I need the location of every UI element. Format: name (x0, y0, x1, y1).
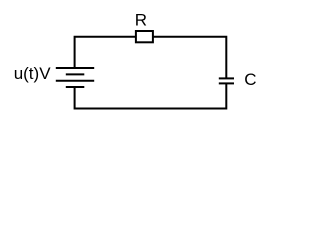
battery / voltage source u(t)V : long plate 1 (56, 67, 94, 69)
svg-text:u(t)V: u(t)V (14, 64, 52, 83)
battery short plate 1 (66, 73, 85, 75)
wire: bottom loop (left vertical from battery bottom + bottom horizontal + right vertical up to capacitor bottom plate) (75, 83, 227, 108)
resistor R (box) (136, 31, 153, 42)
svg-text:R: R (135, 11, 147, 30)
wire: top loop (left vertical + top horizontal + right vertical down to capacitor top plate) (75, 37, 227, 79)
battery short plate 2 (66, 86, 85, 88)
svg-text:C: C (244, 70, 256, 89)
capacitor C plate bottom (219, 82, 234, 84)
battery long plate 2 (56, 80, 94, 82)
capacitor C plate top (219, 77, 234, 79)
